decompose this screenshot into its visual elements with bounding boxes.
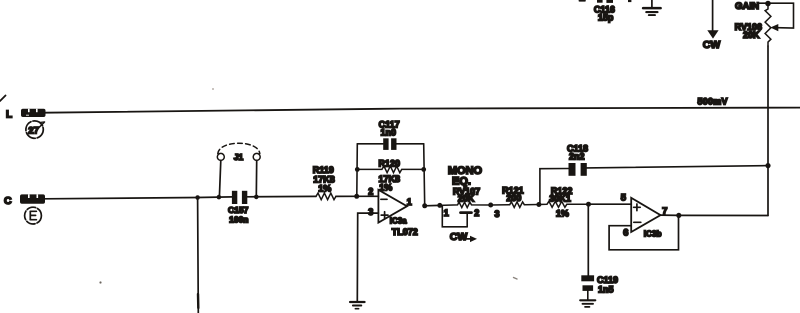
junction IC3b output (676, 213, 681, 218)
wire feedback left vertical (356, 144, 359, 197)
jumper J1 (217, 143, 260, 197)
resistor R120 (357, 158, 423, 192)
wire pin 6 feedback loop (609, 215, 678, 249)
svg-text:R120: R120 (378, 158, 400, 168)
svg-text:3: 3 (494, 209, 499, 219)
svg-text:20K: 20K (458, 193, 475, 203)
stray speck 3 (514, 278, 518, 280)
ground (IC3a pin 3) (350, 302, 364, 309)
node label E (circled) (25, 207, 42, 224)
wire R119 to pin2 node (336, 195, 357, 197)
svg-text:5: 5 (621, 193, 627, 204)
wire vertical to bottom edge (197, 198, 200, 313)
wire pin 2 (357, 195, 379, 197)
resistor R122 (539, 186, 589, 219)
svg-text:1n5: 1n5 (598, 284, 614, 294)
junction GAIN node (765, 1, 771, 7)
svg-text:6: 6 (623, 227, 628, 238)
wire right vertical (gain feed) (767, 46, 769, 216)
label CW (RV107) with arrow (450, 231, 477, 243)
svg-text:1: 1 (444, 208, 449, 218)
svg-text:500mV: 500mV (698, 96, 728, 106)
svg-text:200: 200 (506, 193, 521, 203)
stray speck 2 (99, 281, 101, 283)
stray speck 1 (212, 88, 214, 90)
junction R121/R122 node (536, 202, 541, 207)
op-amp IC3a (368, 187, 418, 237)
svg-text:27: 27 (28, 125, 39, 136)
wire IC3b output (661, 214, 679, 216)
svg-text:IC3b: IC3b (644, 230, 662, 239)
junction RV107 pin3 (488, 203, 493, 208)
resistor R119 (313, 165, 336, 200)
junction J1 left (217, 195, 222, 200)
wire remnant left of C116 (579, 0, 585, 2)
capacitor C157 (228, 191, 249, 225)
svg-text:1%: 1% (318, 183, 331, 193)
svg-text:2n2: 2n2 (569, 151, 585, 161)
svg-text:J1: J1 (234, 152, 244, 162)
junction pin 2 node (354, 194, 359, 199)
junction R122/pin5 node (586, 202, 591, 207)
svg-text:L: L (6, 110, 12, 121)
svg-text:100n: 100n (229, 215, 248, 225)
node L (input connector) (6, 109, 46, 121)
svg-text:C157: C157 (228, 205, 249, 215)
svg-text:1%: 1% (379, 182, 392, 192)
svg-text:GAIN: GAIN (735, 1, 759, 12)
capacitor C116 (cut off at top) (594, 0, 615, 23)
junction at C line split (195, 195, 200, 200)
svg-text:CW: CW (450, 231, 468, 243)
resistor R121 (491, 185, 539, 207)
svg-text:30K1: 30K1 (549, 193, 571, 203)
wire output to right vertical (679, 214, 768, 216)
ground (C119) (580, 300, 595, 307)
svg-text:1: 1 (407, 197, 412, 207)
svg-text:1%: 1% (556, 209, 569, 219)
capacitor C119 (581, 204, 618, 299)
svg-text:15p: 15p (598, 13, 614, 23)
wire C input line (45, 197, 232, 199)
svg-text:IC3a: IC3a (390, 216, 407, 225)
junction IC3a output (422, 203, 427, 208)
capacitor C118 (540, 143, 768, 204)
potentiometer RV106 (GAIN) (735, 3, 794, 46)
wire C157 to R119 (247, 195, 316, 197)
node label 27 (circled) (26, 121, 45, 138)
svg-text:CW: CW (703, 39, 721, 51)
wire pin 3 to ground (357, 213, 378, 301)
wire L line (500mV net) (46, 108, 800, 113)
op-amp IC3b (621, 193, 668, 239)
node C (input connector) (4, 194, 45, 207)
svg-text:C: C (4, 195, 12, 207)
junction RV107 pin1 (437, 203, 442, 208)
svg-text:1n0: 1n0 (380, 127, 396, 137)
svg-text:2: 2 (474, 208, 479, 218)
wire to pin 5 (589, 203, 632, 205)
junction R120 left (355, 167, 360, 172)
wire feedback right vertical (424, 144, 425, 206)
svg-text:2: 2 (368, 187, 373, 197)
junction J1 right (254, 195, 259, 200)
wire output to RV107 (425, 204, 440, 206)
svg-text:20K: 20K (743, 30, 760, 40)
svg-text:3: 3 (368, 207, 373, 217)
ground (top, near C116) (643, 0, 661, 15)
wire CW arrow (top) (707, 0, 718, 39)
potentiometer RV107 (MONO EQ) (440, 165, 500, 227)
capacitor C117 (357, 119, 423, 150)
junction R120 right (421, 167, 426, 172)
svg-text:TL072: TL072 (392, 227, 418, 237)
stray tick top-left (0, 96, 6, 102)
wire remnant right of C116 (628, 0, 631, 2)
junction C118 to vertical (765, 163, 770, 168)
